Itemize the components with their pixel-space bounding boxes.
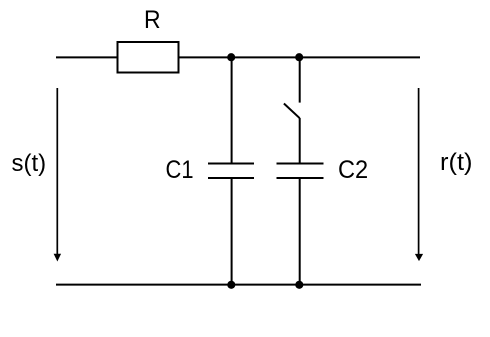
svg-text:s(t): s(t) <box>12 150 47 177</box>
wire bottom <box>56 284 421 286</box>
wire switch to C2 <box>299 118 301 164</box>
wire C1 branch lower <box>231 178 233 286</box>
node junction top-right <box>295 53 303 61</box>
svg-text:C1: C1 <box>166 156 194 184</box>
wire switch branch upper <box>299 57 301 102</box>
node junction bottom-left <box>227 281 235 289</box>
svg-text:r(t): r(t) <box>440 149 473 176</box>
arrow r(t) output indicator <box>415 88 423 261</box>
resistor R <box>118 42 179 73</box>
svg-text:R: R <box>144 6 161 34</box>
node junction top-left <box>227 53 235 61</box>
arrow s(t) input indicator <box>54 88 62 262</box>
switch blade (open) <box>284 104 300 119</box>
wire top-right segment <box>179 56 421 58</box>
wire top-left segment <box>56 56 117 58</box>
wire C2 branch lower <box>299 178 301 286</box>
capacitor C1 <box>208 164 254 179</box>
node junction bottom-right <box>295 281 303 289</box>
capacitor C2 <box>277 164 324 179</box>
wire C1 branch upper <box>231 57 233 163</box>
svg-text:C2: C2 <box>338 156 368 184</box>
